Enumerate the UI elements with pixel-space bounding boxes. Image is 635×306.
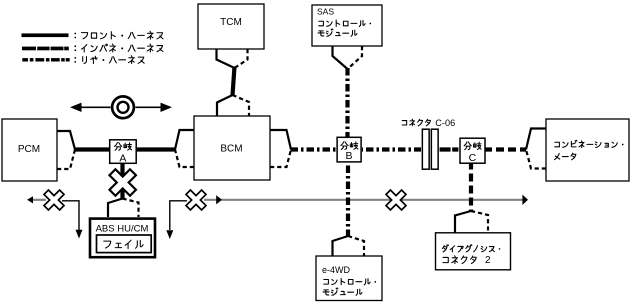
wire: front harness TCM connector to BCM connector (thick solid) — [233, 67, 235, 96]
wire: rear harness branch B through connector C-06 to branch C (thick dash-dot) — [362, 147, 422, 151]
large X break mark on branch A - ABS wire — [102, 162, 143, 203]
wire: front harness branch A to BCM fork (thick solid) — [134, 147, 176, 151]
wire: gray signal-flow stub left of first X — [33, 199, 47, 201]
connector fork at BCM right side — [270, 130, 291, 150]
module box BCM — [194, 116, 270, 180]
label SAS line2 — [319, 21, 324, 26]
connector fork below SAS control module — [333, 46, 348, 69]
node box branch B — [337, 137, 361, 162]
legend text front harness — [74, 33, 76, 39]
svg-text:B: B — [345, 150, 352, 162]
label bunki C — [464, 142, 471, 150]
label diag line1 — [442, 245, 448, 252]
svg-text:C-06: C-06 — [435, 118, 455, 128]
label konekuta C-06 — [402, 121, 407, 125]
wire: instrument-panel harness branch C to combination-meter fork (thick dashed) — [484, 147, 526, 151]
wire: front harness branch A down to ABS fork (thick solid) — [120, 163, 124, 199]
wire: black detour from first X corner down to left of ABS HU/CM — [62, 201, 79, 230]
label meter line2 — [554, 153, 559, 159]
node box branch C — [460, 138, 485, 163]
label bunki A — [115, 143, 122, 151]
connector fork above e-4WD control module — [333, 236, 349, 256]
node box branch A — [110, 140, 137, 164]
svg-text:SAS: SAS — [317, 7, 334, 17]
label meter line1 — [555, 142, 560, 147]
svg-text:e-4WD: e-4WD — [322, 265, 351, 275]
svg-text:C: C — [469, 152, 477, 164]
svg-text:PCM: PCM — [18, 144, 40, 155]
module box TCM — [198, 4, 264, 49]
svg-text:BCM: BCM — [220, 144, 242, 155]
svg-text:ABS HU/CM: ABS HU/CM — [96, 224, 149, 235]
connector fork at PCM right side — [57, 131, 75, 150]
arrow: mid-line right-pointing arrowhead after second X — [216, 195, 222, 204]
connector fork above diagnosis connector 2 — [455, 211, 471, 233]
legend text inpane harness — [74, 45, 76, 51]
wire: black detour from right of ABS HU/CM up to second X — [170, 201, 187, 230]
connector fork at BCM left side — [175, 130, 194, 150]
arrow: left-pointing arrowhead on gray line — [27, 196, 33, 203]
legend: rear harness sample line (dash-dot) — [22, 58, 28, 61]
label e4wd line3 — [323, 290, 329, 295]
wire: rear harness BCM fork to branch B (thick dash-dot) — [291, 147, 339, 151]
svg-text:A: A — [119, 152, 126, 164]
label e4wd line2 — [324, 280, 329, 285]
label fail — [104, 241, 111, 248]
module box ABS HU/CM (thick border) — [90, 219, 155, 258]
legend: front harness sample line (solid) — [22, 33, 69, 37]
wire: rear harness branch B down to e-4WD fork (thick dash-dot) — [346, 150, 350, 237]
arrow: down-pointing arrowhead left of ABS HU/CM — [76, 230, 83, 239]
symbol: double-headed arrow with double circle (bus terminator) — [79, 106, 167, 108]
svg-text:TCM: TCM — [220, 17, 242, 28]
svg-text:2: 2 — [485, 255, 491, 266]
module box combination meter — [546, 119, 629, 181]
connector C-06 symbol (two cells) — [421, 128, 440, 170]
arrow: down-pointing arrowhead right of ABS HU/CM — [166, 230, 173, 239]
module box e-4WD control module — [316, 256, 382, 301]
wire: rear harness SAS fork down to branch B (thick dash-dot) — [345, 68, 349, 137]
label SAS line3 — [318, 31, 324, 36]
label bunki B — [341, 142, 348, 150]
connector fork at combination meter left side — [526, 129, 546, 150]
module box PCM — [2, 119, 57, 181]
wire: front harness PCM fork to branch A (thick solid) — [75, 147, 110, 151]
X break mark on gray line (middle) — [180, 184, 211, 215]
module box diagnosis connector 2 — [436, 233, 511, 270]
wire: instrument-panel harness branch C down to diagnosis fork (thick dashed) — [469, 150, 473, 212]
connector fork below TCM — [217, 49, 235, 68]
module box SAS control module — [312, 5, 382, 46]
connector fork above ABS HU/CM — [108, 199, 123, 218]
wire: gray signal-flow line from second X to right end — [204, 199, 524, 201]
legend text rear harness — [74, 57, 76, 63]
label diag line2 — [443, 257, 448, 262]
X break mark on gray line (left) — [38, 184, 69, 215]
X break mark on gray line (right) — [380, 184, 411, 215]
legend: instrument-panel harness sample line (dashed) — [22, 47, 36, 51]
connector fork above BCM — [217, 95, 233, 116]
arrow: right-pointing arrowhead at end of gray line — [522, 195, 528, 205]
inner box fail lamp — [97, 235, 152, 253]
